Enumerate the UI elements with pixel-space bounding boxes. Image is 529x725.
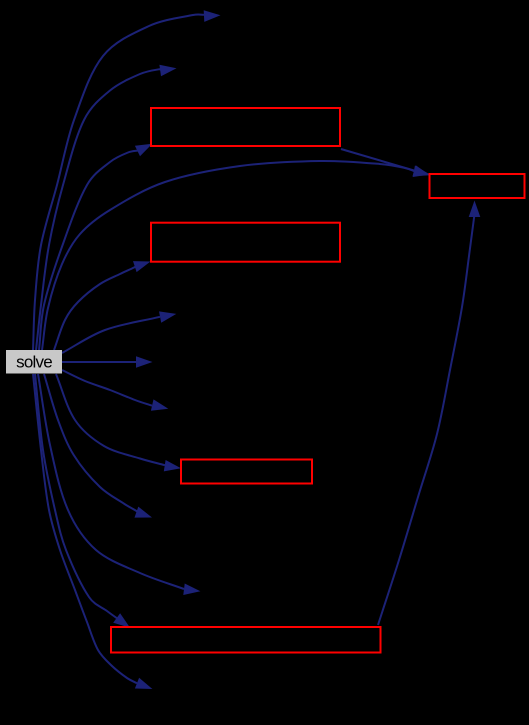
edge solve to node row13: [33, 374, 152, 689]
edge solve to box B4: [56, 374, 181, 471]
edge solve to node row11: [38, 374, 200, 595]
edge solve to node row7: [62, 356, 153, 368]
edge solve to node row8: [62, 370, 168, 411]
node B5 (red box bottom): [111, 627, 381, 653]
svg-text:solve: solve: [16, 353, 52, 372]
node solve: [6, 350, 62, 374]
edge box B1 to box B2: [341, 149, 430, 176]
edge solve to box B2: [42, 161, 430, 350]
node B2 (red box right): [430, 174, 525, 198]
edge solve to node row6: [62, 311, 176, 353]
node B1 (red box top): [151, 108, 340, 146]
edge solve to node row1: [33, 10, 221, 350]
edge solve to box B5: [35, 374, 130, 628]
node B3 (red box second): [151, 223, 340, 262]
edge solve to box B1: [39, 144, 152, 350]
edge solve to node row2: [36, 65, 177, 350]
edge solve to box B3: [54, 261, 151, 350]
edge solve to node row10: [44, 374, 152, 518]
node B4 (red box small): [181, 460, 312, 484]
edge box B5 to box B2: [378, 201, 480, 626]
